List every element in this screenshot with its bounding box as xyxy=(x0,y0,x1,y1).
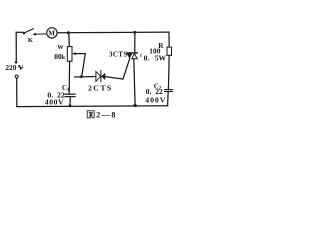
wire left frame upper xyxy=(15,32,17,61)
wire right frame R to C2 xyxy=(167,55,170,89)
wire right frame C2 to bottom corner xyxy=(167,92,170,106)
wire thyristor cathode down xyxy=(134,59,135,106)
junction dot thyristor cathode bottom xyxy=(134,104,137,107)
svg-text:2—8: 2—8 xyxy=(96,111,115,120)
junction dot C1 bottom xyxy=(69,104,72,107)
diac 2CTS symbol xyxy=(96,70,105,82)
wire right frame corner to resistor R xyxy=(168,32,170,47)
svg-text:80k: 80k xyxy=(54,52,66,61)
stray scan mark xyxy=(140,54,143,57)
potentiometer wiper arrowhead xyxy=(72,52,76,55)
wire top from motor to top-right corner xyxy=(57,31,169,34)
caption glyph 图 (drawn boxed glyph) xyxy=(87,111,94,118)
switch K hinge dot xyxy=(23,32,25,34)
wire wiper to diac: right, down xyxy=(76,54,86,77)
wire C1 to bottom frame xyxy=(69,97,71,106)
capacitor C1 plates xyxy=(64,94,75,96)
source lower terminal circle xyxy=(15,75,18,78)
svg-text:220: 220 xyxy=(5,63,16,72)
wire gate diagonal xyxy=(123,59,130,79)
thyristor 3CTS symbol xyxy=(126,53,138,59)
wire bottom frame xyxy=(17,105,168,108)
wire thyristor anode branch xyxy=(134,32,136,52)
junction dot wiper bend xyxy=(80,75,83,78)
potentiometer W body xyxy=(67,47,72,62)
junction dot top of thyristor branch xyxy=(133,31,136,34)
wire potentiometer branch top xyxy=(68,33,71,47)
wire diac to gate bend xyxy=(105,77,123,79)
svg-text:M: M xyxy=(48,29,55,37)
svg-text:W: W xyxy=(57,44,64,51)
svg-text:2CTS: 2CTS xyxy=(88,84,113,93)
svg-text:400V: 400V xyxy=(45,98,64,107)
wire wiper junction to diac xyxy=(75,76,96,79)
wire top-left from corner to switch xyxy=(16,31,23,33)
switch K arrow contact xyxy=(32,33,46,36)
resistor R body xyxy=(167,47,172,55)
svg-text:3CTS: 3CTS xyxy=(109,51,128,59)
wire potentiometer to C1 xyxy=(68,61,70,94)
wire left frame lower xyxy=(16,78,18,106)
capacitor C2 plates xyxy=(164,90,173,92)
motor M circle xyxy=(47,28,57,38)
switch K blade xyxy=(24,29,33,33)
source upper terminal dot xyxy=(15,61,18,64)
svg-text:400V: 400V xyxy=(145,95,166,104)
svg-text:0.5W: 0.5W xyxy=(144,53,167,62)
svg-text:K: K xyxy=(28,37,34,44)
junction dot top of potentiometer branch xyxy=(67,31,70,34)
